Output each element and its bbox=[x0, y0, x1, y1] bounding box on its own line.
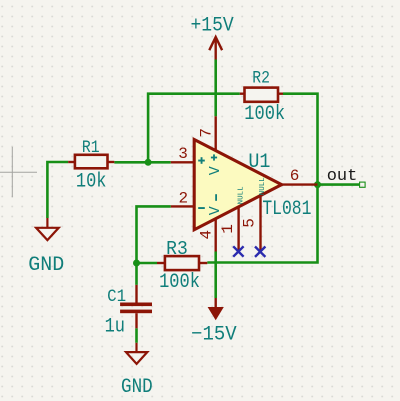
svg-text:−15V: −15V bbox=[191, 323, 237, 346]
pin 2 minus marker bbox=[198, 207, 205, 209]
origin crosshair bbox=[0, 147, 37, 198]
svg-text:10k: 10k bbox=[76, 170, 107, 193]
svg-text:100k: 100k bbox=[159, 271, 200, 294]
svg-text:NULL: NULL bbox=[259, 177, 267, 196]
node junction dot at C1/R3 bbox=[133, 260, 140, 267]
pin 7 stub bbox=[214, 116, 216, 151]
wire: input left to GND drop bbox=[47, 162, 68, 218]
svg-text:4: 4 bbox=[197, 230, 215, 240]
pin 3 plus marker bbox=[198, 157, 205, 164]
svg-text:7: 7 bbox=[198, 128, 216, 138]
wire: node to R3 left bbox=[137, 262, 158, 265]
power symbol +15V bbox=[209, 37, 222, 60]
svg-text:TL081: TL081 bbox=[262, 199, 311, 221]
svg-text:V: V bbox=[207, 166, 224, 175]
pin 3 stub bbox=[171, 161, 194, 163]
svg-text:6: 6 bbox=[290, 167, 300, 185]
svg-text:R3: R3 bbox=[166, 239, 188, 261]
pin 5 stub bbox=[259, 196, 261, 252]
svg-text:+15V: +15V bbox=[191, 14, 235, 37]
wire: pin 4 to -15V bbox=[214, 252, 217, 299]
node junction dot at R1/pin3 bbox=[145, 159, 152, 166]
wire: R2 right to output column down to R3 right bbox=[207, 94, 317, 263]
power symbol -15V bbox=[208, 298, 224, 320]
svg-text:GND: GND bbox=[28, 254, 64, 277]
svg-text:R2: R2 bbox=[252, 67, 270, 88]
wire: C1 bottom to GND bbox=[135, 328, 138, 343]
svg-text:C1: C1 bbox=[107, 287, 126, 307]
resistor R3 bbox=[157, 256, 207, 270]
svg-text:NULL: NULL bbox=[237, 186, 245, 205]
pin name V- bbox=[215, 194, 217, 201]
pin 6 stub bbox=[282, 183, 318, 185]
svg-text:5: 5 bbox=[240, 218, 258, 228]
no-connect X on pin 5 bbox=[255, 247, 265, 257]
capacitor C1 bbox=[120, 285, 152, 328]
svg-text:1u: 1u bbox=[105, 315, 125, 338]
pin 2 stub bbox=[171, 205, 194, 207]
ground symbol bottom bbox=[126, 343, 147, 364]
ground symbol left bbox=[36, 218, 59, 240]
pin 4 stub bbox=[214, 218, 216, 251]
wire: output to out label anchor bbox=[318, 183, 360, 186]
svg-text:100k: 100k bbox=[244, 103, 285, 126]
svg-text:1: 1 bbox=[219, 224, 237, 234]
svg-text:out: out bbox=[327, 167, 358, 186]
pin 1 stub bbox=[237, 207, 239, 252]
svg-text:2: 2 bbox=[178, 189, 188, 207]
wire: R1 right to pin 3 bbox=[114, 161, 171, 164]
svg-text:U1: U1 bbox=[248, 150, 270, 173]
net label anchor square for out bbox=[360, 182, 366, 187]
node junction dot at output bbox=[314, 181, 321, 188]
svg-text:3: 3 bbox=[178, 145, 188, 163]
wire: +15V to pin 7 bbox=[214, 60, 217, 117]
svg-text:GND: GND bbox=[121, 375, 153, 398]
pin name V+ bbox=[211, 154, 217, 160]
svg-text:V: V bbox=[207, 206, 224, 215]
resistor R1 bbox=[68, 155, 114, 169]
resistor R2 bbox=[240, 88, 283, 102]
wire: node A vertical + top feedback wire to R2 left bbox=[47, 60, 359, 343]
no-connect X on pin 1 bbox=[233, 246, 243, 256]
wire: pin 2 to C1/R3 node bbox=[137, 206, 171, 285]
op-amp U1 body bbox=[194, 140, 281, 230]
svg-text:R1: R1 bbox=[82, 137, 100, 158]
